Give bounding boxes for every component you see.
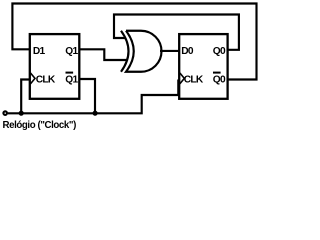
wire Q1-bar to rail [79, 79, 95, 113]
wire Q1 to XOR lower input [79, 49, 127, 60]
U1 CLK edge triangle [30, 73, 35, 84]
svg-text:Q0: Q0 [213, 46, 226, 57]
wire XOR output to D0 [160, 50, 179, 52]
svg-text:Q1: Q1 [65, 75, 78, 86]
svg-text:Relógio ("Clock"): Relógio ("Clock") [3, 120, 77, 131]
flip-flop U2 box [179, 34, 227, 99]
U2 CLK edge triangle [180, 73, 185, 84]
svg-text:D0: D0 [181, 46, 194, 57]
junction Q1-bar node B [93, 111, 98, 116]
svg-text:CLK: CLK [184, 75, 204, 86]
svg-text:Q0: Q0 [213, 75, 226, 86]
XOR gate U3 [121, 31, 162, 72]
junction clock node A [19, 111, 24, 116]
wire clock rail to U2 CLK [8, 80, 179, 114]
flip-flop U1 box [30, 34, 80, 99]
svg-text:Q1: Q1 [65, 46, 78, 57]
wire clock branch to U1 CLK [21, 80, 30, 114]
U1 Q1-bar overbar [66, 72, 74, 74]
clock input terminal [3, 111, 7, 115]
U2 Q0-bar overbar [213, 72, 221, 74]
svg-text:D1: D1 [33, 46, 46, 57]
wire Q0 to XOR upper input [114, 15, 239, 50]
wire Q0-bar to D1 feedback loop [12, 4, 256, 80]
svg-text:CLK: CLK [36, 75, 56, 86]
